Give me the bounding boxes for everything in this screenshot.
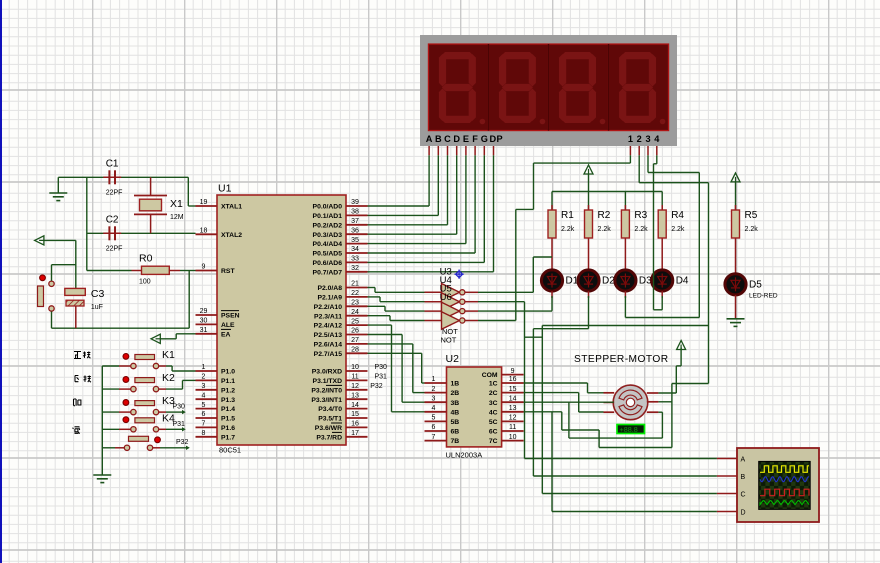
U1 pin 18 XTAL2 bbox=[196, 228, 243, 239]
svg-text:2.2k: 2.2k bbox=[671, 226, 685, 233]
svg-text:P2.0/A8: P2.0/A8 bbox=[317, 285, 342, 292]
svg-text:A: A bbox=[741, 456, 746, 463]
wire P2.1 to gate U4 bbox=[368, 297, 425, 302]
U1 pin 27 P2.6/A14 bbox=[314, 337, 368, 348]
U1 pin 19 XTAL1 bbox=[196, 199, 243, 210]
svg-text:1uF: 1uF bbox=[91, 304, 103, 311]
svg-text:80C51: 80C51 bbox=[219, 446, 241, 455]
oscilloscope wires A-D bbox=[525, 459, 738, 512]
wire ground drop left bbox=[57, 177, 59, 193]
wire K3 net P30 bbox=[159, 404, 186, 415]
U1 pin 31 EA bbox=[196, 327, 232, 338]
svg-text:39: 39 bbox=[351, 199, 359, 206]
svg-text:23: 23 bbox=[351, 300, 359, 307]
wire bus to K2 bbox=[102, 388, 130, 390]
wire U2 3C to motor mid-left and BR bbox=[524, 402, 663, 438]
svg-text:U2: U2 bbox=[446, 353, 460, 365]
svg-text:7: 7 bbox=[432, 434, 436, 441]
U1 pin 9 RST bbox=[196, 264, 236, 275]
svg-text:19: 19 bbox=[200, 199, 208, 206]
svg-text:33: 33 bbox=[351, 256, 359, 263]
svg-text:P1.5: P1.5 bbox=[221, 416, 235, 423]
bus wires P0.0-P0.7 to display segments bbox=[368, 155, 494, 271]
svg-text:34: 34 bbox=[351, 246, 359, 253]
svg-text:30: 30 bbox=[200, 318, 208, 325]
wire digit1 net (display pin1 - gate U6 out) bbox=[478, 155, 630, 320]
svg-text:P32: P32 bbox=[370, 383, 383, 390]
lead R4 bbox=[661, 192, 663, 260]
4-digit 7-segment display 7SEG-MPX4 bbox=[420, 35, 677, 146]
svg-text:32: 32 bbox=[351, 265, 359, 272]
svg-text:31: 31 bbox=[200, 327, 208, 334]
svg-text:D4: D4 bbox=[676, 276, 689, 287]
svg-text:K1: K1 bbox=[162, 349, 175, 361]
wire XTAL2 net bbox=[87, 232, 196, 234]
svg-text:5C: 5C bbox=[489, 419, 498, 426]
wire U2 2C to motor BL bbox=[524, 393, 604, 412]
svg-text:28: 28 bbox=[351, 347, 359, 354]
svg-text:P1.1: P1.1 bbox=[221, 378, 235, 385]
svg-text:P3.7/RD: P3.7/RD bbox=[316, 434, 342, 441]
svg-text:U1: U1 bbox=[218, 183, 232, 195]
wire K1 to P1.0 bbox=[159, 366, 196, 371]
wire P2.5 to U2 3B bbox=[368, 335, 425, 403]
terminal (reset power) bbox=[35, 236, 44, 245]
U2 pin 14 3C bbox=[489, 395, 524, 406]
svg-text:D: D bbox=[741, 509, 746, 516]
svg-text:2: 2 bbox=[202, 374, 206, 381]
terminal (EA) bbox=[151, 334, 160, 343]
wire P2.0 to gate U3 bbox=[368, 288, 425, 293]
lead R2-D2 bbox=[588, 259, 590, 270]
U1 pin 6 P1.5 bbox=[196, 411, 236, 422]
U2 pin 12 5C bbox=[489, 415, 524, 426]
LED D2 bbox=[578, 270, 615, 291]
U1 pin 37 P0.2/AD2 bbox=[313, 218, 368, 229]
svg-text:2.2k: 2.2k bbox=[598, 226, 612, 233]
U2 pin 4 4B bbox=[425, 405, 460, 416]
ground (D5) bbox=[727, 319, 745, 327]
U2 pin 16 1C bbox=[489, 376, 524, 387]
wire arrow to C3 top bbox=[44, 240, 76, 288]
sheet border bbox=[0, 0, 2, 563]
resistor R2 2.2k bbox=[585, 210, 612, 238]
lead R3-D3 bbox=[624, 259, 626, 270]
U2 pin 7 7B bbox=[425, 434, 460, 445]
svg-text:22PF: 22PF bbox=[106, 189, 123, 196]
resistor R1 2.2k bbox=[548, 210, 575, 238]
svg-text:3: 3 bbox=[202, 383, 206, 390]
RST to C3 net bbox=[52, 271, 190, 329]
capacitor C2 bbox=[103, 214, 122, 252]
svg-text:C: C bbox=[444, 134, 451, 144]
U2 pin 3 3B bbox=[425, 395, 460, 406]
svg-text:22PF: 22PF bbox=[106, 245, 123, 252]
svg-text:D: D bbox=[453, 134, 460, 144]
wire XTAL1 net bbox=[58, 177, 195, 206]
svg-text:11: 11 bbox=[509, 424, 516, 431]
svg-text:9: 9 bbox=[511, 368, 515, 375]
svg-text:13: 13 bbox=[509, 405, 517, 412]
svg-text:+88.8: +88.8 bbox=[620, 425, 638, 434]
lead R2 bbox=[588, 192, 590, 260]
display digit 3 bbox=[550, 45, 608, 129]
U1 pin 26 P2.5/A13 bbox=[314, 328, 368, 339]
svg-text:ALE: ALE bbox=[221, 322, 235, 329]
wire K4 net P31 bbox=[159, 421, 186, 432]
U1 pin 12 P3.2/INT0 bbox=[311, 383, 367, 394]
svg-text:P0.3/AD3: P0.3/AD3 bbox=[313, 232, 343, 239]
svg-text:25: 25 bbox=[351, 318, 359, 325]
U1 pin 5 P1.4 bbox=[196, 402, 236, 413]
wire K5 net P32 bbox=[153, 439, 190, 450]
display segment pins A-DP bbox=[429, 146, 493, 155]
svg-text:P0.2/AD2: P0.2/AD2 bbox=[313, 222, 343, 229]
svg-text:R0: R0 bbox=[139, 253, 153, 265]
LED D5 red bbox=[725, 274, 778, 300]
svg-text:1C: 1C bbox=[489, 381, 498, 388]
NOT gate U6 bbox=[425, 312, 479, 330]
svg-text:R4: R4 bbox=[671, 210, 684, 221]
svg-text:P32: P32 bbox=[176, 439, 189, 446]
U1 pin 29 PSEN bbox=[196, 308, 240, 319]
lead R1-D1 bbox=[551, 259, 553, 270]
display digit 2 bbox=[490, 45, 548, 129]
label 反转 (reverse) bbox=[75, 376, 91, 383]
motor pins bbox=[604, 393, 659, 412]
svg-text:E: E bbox=[463, 134, 469, 144]
svg-text:C2: C2 bbox=[106, 214, 119, 225]
svg-text:11: 11 bbox=[351, 374, 358, 381]
svg-text:15: 15 bbox=[351, 411, 359, 418]
U1 pin 8 P1.7 bbox=[196, 430, 236, 441]
svg-text:B: B bbox=[741, 474, 746, 481]
svg-text:P30: P30 bbox=[375, 364, 388, 371]
stepper motor symbol bbox=[613, 385, 648, 420]
svg-text:P2.5/A13: P2.5/A13 bbox=[314, 332, 343, 339]
ground (buttons) bbox=[93, 475, 111, 483]
ground (crystal caps) bbox=[49, 193, 67, 201]
U1 pin 13 P3.3/INT1 bbox=[311, 392, 367, 403]
svg-text:12M: 12M bbox=[170, 214, 184, 221]
svg-text:XTAL2: XTAL2 bbox=[221, 232, 242, 239]
U1 pin 36 P0.3/AD3 bbox=[313, 227, 368, 238]
power terminal (R5) bbox=[731, 173, 740, 182]
power terminal (motor) bbox=[677, 341, 686, 350]
power rail for R1-R4 bbox=[552, 174, 662, 192]
motor rpm readout +88.8 bbox=[617, 425, 645, 434]
wire gate U4 out / scope A trunk bbox=[478, 302, 525, 459]
wire digit2 to motor mid-right bbox=[672, 383, 709, 385]
svg-text:P2.1/A9: P2.1/A9 bbox=[317, 295, 342, 302]
svg-text:100: 100 bbox=[139, 279, 151, 286]
U1 80C51 microcontroller body bbox=[217, 183, 346, 455]
U1 pin 22 P2.1/A9 bbox=[317, 290, 367, 301]
svg-text:P0.0/AD0: P0.0/AD0 bbox=[313, 204, 343, 211]
svg-text:A: A bbox=[426, 134, 433, 144]
resistor R4 2.2k bbox=[658, 210, 685, 238]
svg-text:P31: P31 bbox=[375, 373, 388, 380]
svg-text:P1.0: P1.0 bbox=[221, 369, 235, 376]
svg-text:2C: 2C bbox=[489, 390, 498, 397]
svg-text:C1: C1 bbox=[106, 158, 119, 169]
net labels P30 P31 P32 at U1 bbox=[370, 364, 387, 390]
ground rail vertical bbox=[86, 177, 88, 270]
svg-text:P3.5/T1: P3.5/T1 bbox=[318, 416, 342, 423]
svg-text:3B: 3B bbox=[451, 400, 460, 407]
crystal X1 12M bbox=[134, 177, 184, 233]
U2 pin 5 5B bbox=[425, 415, 460, 426]
svg-text:14: 14 bbox=[351, 402, 359, 409]
U1 pin 35 P0.4/AD4 bbox=[313, 237, 368, 248]
push button K3 bbox=[123, 395, 175, 415]
svg-text:PSEN: PSEN bbox=[221, 313, 240, 320]
U2 pin 15 2C bbox=[489, 386, 524, 397]
push button K1 bbox=[123, 349, 175, 369]
svg-text:10: 10 bbox=[351, 364, 359, 371]
svg-text:6: 6 bbox=[432, 424, 436, 431]
svg-text:XTAL1: XTAL1 bbox=[221, 204, 242, 211]
svg-text:6C: 6C bbox=[489, 429, 498, 436]
svg-text:4: 4 bbox=[432, 405, 436, 412]
svg-text:P2.3/A11: P2.3/A11 bbox=[314, 313, 342, 320]
svg-text:2B: 2B bbox=[451, 390, 460, 397]
wire P2.3 to gate U6 bbox=[368, 316, 425, 321]
wire EA bbox=[160, 334, 195, 339]
svg-text:2: 2 bbox=[432, 386, 436, 393]
NOT gate U4 bbox=[425, 293, 479, 311]
svg-text:R3: R3 bbox=[634, 210, 647, 221]
svg-text:22: 22 bbox=[351, 290, 359, 297]
wire K2 to P1.1 bbox=[159, 380, 196, 389]
svg-text:12: 12 bbox=[509, 415, 517, 422]
svg-text:3C: 3C bbox=[489, 400, 498, 407]
svg-text:K2: K2 bbox=[162, 372, 175, 384]
svg-text:R1: R1 bbox=[561, 210, 574, 221]
reset push button (vertical) bbox=[38, 275, 55, 311]
svg-text:C: C bbox=[741, 491, 746, 498]
svg-text:29: 29 bbox=[200, 308, 208, 315]
svg-text:P30: P30 bbox=[173, 404, 186, 411]
svg-text:35: 35 bbox=[351, 237, 359, 244]
U2 ULN2003A body bbox=[446, 353, 502, 460]
wire bus to K5 bbox=[102, 447, 124, 449]
svg-text:F: F bbox=[472, 134, 478, 144]
svg-text:1: 1 bbox=[628, 134, 633, 144]
svg-text:B: B bbox=[435, 134, 442, 144]
oscilloscope body bbox=[737, 448, 819, 522]
svg-text:26: 26 bbox=[351, 328, 359, 335]
svg-text:37: 37 bbox=[351, 218, 359, 225]
label 减 (decrease) bbox=[73, 427, 80, 434]
svg-text:3: 3 bbox=[645, 134, 650, 144]
display pin labels bbox=[426, 134, 660, 144]
wire U2 4C to scope D trunk bbox=[524, 412, 672, 512]
svg-text:7: 7 bbox=[202, 421, 206, 428]
U1 pin 16 P3.6/WR bbox=[315, 421, 368, 432]
lead R4-D4 bbox=[661, 259, 663, 270]
U1 pin 2 P1.1 bbox=[196, 374, 236, 385]
svg-text:LED-RED: LED-RED bbox=[749, 292, 778, 299]
svg-text:16: 16 bbox=[351, 421, 359, 428]
power terminal (R rail) bbox=[584, 165, 593, 174]
svg-text:P0.6/AD6: P0.6/AD6 bbox=[313, 260, 343, 267]
svg-text:P2.4/A12: P2.4/A12 bbox=[314, 323, 343, 330]
capacitor C1 bbox=[103, 158, 122, 196]
svg-text:P2.6/A14: P2.6/A14 bbox=[314, 342, 343, 349]
svg-text:STEPPER-MOTOR: STEPPER-MOTOR bbox=[574, 354, 669, 365]
svg-text:C3: C3 bbox=[91, 288, 105, 300]
push button K2 bbox=[123, 372, 175, 392]
label 加 (increase) bbox=[74, 399, 81, 406]
wire U2 1C to motor TL bbox=[524, 383, 604, 393]
svg-text:5B: 5B bbox=[451, 419, 460, 426]
wire D1 cathode joins gate U5 line bbox=[525, 291, 553, 337]
LED D1 bbox=[541, 270, 578, 291]
U1 pin 38 P0.1/AD1 bbox=[313, 209, 368, 220]
svg-text:5: 5 bbox=[432, 415, 436, 422]
U1 pin 34 P0.5/AD5 bbox=[313, 246, 368, 257]
lead R3 bbox=[624, 192, 626, 260]
resistor R0 100 (horizontal) bbox=[87, 253, 196, 286]
U1 pin 21 P2.0/A8 bbox=[317, 281, 367, 292]
svg-text:P0.7/AD7: P0.7/AD7 bbox=[313, 269, 343, 276]
svg-text:9: 9 bbox=[202, 264, 206, 271]
svg-text:D5: D5 bbox=[749, 279, 762, 290]
U1 pin 39 P0.0/AD0 bbox=[313, 199, 368, 210]
U2 pin 13 4C bbox=[489, 405, 524, 416]
svg-text:16: 16 bbox=[509, 376, 517, 383]
svg-text:P1.2: P1.2 bbox=[221, 387, 235, 394]
svg-text:P2.7/A15: P2.7/A15 bbox=[314, 351, 343, 358]
svg-text:18: 18 bbox=[200, 228, 208, 235]
wire motor TR to power bbox=[658, 348, 681, 394]
wire P2.7 to U2 1B bbox=[368, 353, 425, 383]
svg-text:U6: U6 bbox=[440, 292, 452, 303]
svg-text:P1.3: P1.3 bbox=[221, 397, 235, 404]
capacitor C3 1uF electrolytic bbox=[65, 288, 105, 328]
U1 pin 33 P0.6/AD6 bbox=[313, 256, 368, 267]
svg-text:P3.0/RXD: P3.0/RXD bbox=[312, 369, 342, 376]
U1 pin 25 P2.4/A12 bbox=[314, 318, 368, 329]
svg-text:12: 12 bbox=[351, 383, 359, 390]
gate labels bbox=[440, 267, 459, 345]
U2 pin 1 1B bbox=[425, 376, 460, 387]
svg-text:ULN2003A: ULN2003A bbox=[446, 451, 483, 460]
svg-text:P3.4/T0: P3.4/T0 bbox=[318, 406, 342, 413]
oscilloscope screen bbox=[759, 461, 811, 509]
svg-text:17: 17 bbox=[351, 430, 359, 437]
display digit 4 bbox=[610, 45, 668, 129]
resistor R5 2.2k bbox=[732, 210, 759, 238]
wire bus to K4 bbox=[102, 428, 130, 430]
svg-text:38: 38 bbox=[351, 209, 359, 216]
U1 pin 32 P0.7/AD7 bbox=[313, 265, 368, 276]
wire D2 cathode to scope B trunk bbox=[533, 291, 588, 476]
U2 pin 9 COM bbox=[482, 368, 524, 379]
U1 pin 28 P2.7/A15 bbox=[314, 347, 368, 358]
svg-text:P1.6: P1.6 bbox=[221, 425, 235, 432]
svg-text:D2: D2 bbox=[602, 276, 615, 287]
svg-text:3: 3 bbox=[432, 395, 436, 402]
svg-text:10: 10 bbox=[509, 434, 517, 441]
wire P2.2 to gate U5 bbox=[368, 306, 425, 311]
svg-text:2.2k: 2.2k bbox=[745, 226, 759, 233]
push button K5 bbox=[124, 436, 160, 450]
U1 pin 23 P2.2/A10 bbox=[314, 300, 368, 311]
svg-text:2: 2 bbox=[637, 134, 642, 144]
svg-text:R2: R2 bbox=[598, 210, 611, 221]
svg-text:COM: COM bbox=[482, 372, 498, 379]
wires reset button bbox=[52, 265, 76, 329]
svg-text:1: 1 bbox=[202, 364, 206, 371]
display digit 1 bbox=[430, 45, 488, 129]
svg-text:NOT: NOT bbox=[441, 336, 457, 345]
LED D4 bbox=[652, 270, 689, 291]
svg-text:4C: 4C bbox=[489, 409, 498, 416]
U1 pin 10 P3.0/RXD bbox=[312, 364, 368, 375]
U1 pin 3 P1.2 bbox=[196, 383, 236, 394]
U1 pin 24 P2.3/A11 bbox=[314, 309, 367, 320]
svg-text:27: 27 bbox=[351, 337, 359, 344]
U1 pin 11 P3.1/TXD bbox=[313, 374, 368, 385]
resistor R3 2.2k bbox=[621, 210, 648, 238]
svg-text:G: G bbox=[481, 134, 488, 144]
label 正转 (forward) bbox=[74, 352, 90, 359]
svg-text:P0.4/AD4: P0.4/AD4 bbox=[313, 241, 343, 248]
wire P2.4 to U2 4B bbox=[368, 325, 425, 412]
svg-text:2.2k: 2.2k bbox=[634, 226, 648, 233]
svg-text:1B: 1B bbox=[451, 381, 460, 388]
NOT gate U5 bbox=[425, 302, 479, 320]
button bus to ground bbox=[101, 366, 103, 475]
U1 pin 17 P3.7/RD bbox=[316, 430, 367, 441]
lead R1 bbox=[551, 192, 553, 260]
wire P2.6 to U2 2B bbox=[368, 344, 425, 393]
svg-text:6: 6 bbox=[202, 411, 206, 418]
wire bus to K3 bbox=[102, 411, 130, 413]
svg-text:P3.3/INT1: P3.3/INT1 bbox=[311, 397, 342, 404]
U1 pin 4 P1.3 bbox=[196, 392, 236, 403]
svg-text:P3.2/INT0: P3.2/INT0 bbox=[311, 387, 342, 394]
U1 pin 1 P1.0 bbox=[196, 364, 236, 375]
svg-text:X1: X1 bbox=[170, 198, 183, 210]
svg-text:5: 5 bbox=[202, 402, 206, 409]
svg-text:2.2k: 2.2k bbox=[561, 226, 575, 233]
svg-text:7B: 7B bbox=[451, 438, 460, 445]
svg-text:P3.1/TXD: P3.1/TXD bbox=[313, 378, 343, 385]
svg-text:DP: DP bbox=[490, 134, 504, 144]
svg-text:13: 13 bbox=[351, 392, 359, 399]
svg-text:P0.1/AD1: P0.1/AD1 bbox=[313, 213, 343, 220]
svg-text:4: 4 bbox=[202, 392, 206, 399]
U1 pin 15 P3.5/T1 bbox=[318, 411, 367, 422]
wire bus to K1 bbox=[102, 365, 130, 367]
U1 pin 14 P3.4/T0 bbox=[318, 402, 367, 413]
U1 pin 7 P1.6 bbox=[196, 421, 236, 432]
svg-text:RST: RST bbox=[221, 268, 235, 275]
svg-text:P1.4: P1.4 bbox=[221, 406, 235, 413]
U2 pin 11 6C bbox=[489, 424, 524, 435]
svg-text:14: 14 bbox=[509, 395, 517, 402]
U2 pin 10 7C bbox=[489, 434, 524, 445]
svg-text:P1.7: P1.7 bbox=[221, 434, 235, 441]
svg-text:7C: 7C bbox=[489, 438, 498, 445]
wire digit4 net (display pin4 - D4 cathode) bbox=[654, 155, 663, 309]
svg-text:4B: 4B bbox=[451, 409, 460, 416]
svg-text:EA: EA bbox=[221, 331, 231, 338]
wire digit2 net (display pin2) bbox=[542, 155, 708, 383]
